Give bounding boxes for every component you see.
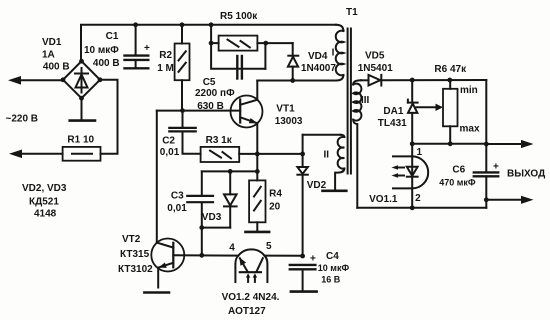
svg-text:630 В: 630 В <box>197 101 224 112</box>
svg-text:1: 1 <box>417 147 423 158</box>
svg-text:ВЫХОД: ВЫХОД <box>507 168 545 179</box>
svg-text:4148: 4148 <box>34 208 57 219</box>
svg-text:1A: 1A <box>42 50 55 61</box>
svg-text:T1: T1 <box>346 7 358 18</box>
svg-text:C3: C3 <box>171 190 184 201</box>
svg-text:III: III <box>361 95 370 106</box>
svg-text:+: + <box>493 162 499 173</box>
svg-text:VD2: VD2 <box>307 180 327 191</box>
svg-text:2200 пФ: 2200 пФ <box>195 88 235 99</box>
svg-text:400 В: 400 В <box>93 58 120 69</box>
svg-text:VO1.2 4N24.: VO1.2 4N24. <box>222 292 280 303</box>
svg-text:КТ315: КТ315 <box>120 249 150 260</box>
svg-text:TL431: TL431 <box>378 118 407 129</box>
svg-text:400 В: 400 В <box>43 62 70 73</box>
svg-text:4: 4 <box>229 243 235 254</box>
svg-text:1N4007: 1N4007 <box>301 63 336 74</box>
svg-text:VD4: VD4 <box>308 51 328 62</box>
svg-text:10 мкФ: 10 мкФ <box>318 263 350 273</box>
svg-text:C4: C4 <box>326 251 339 262</box>
svg-text:+: + <box>144 43 150 54</box>
svg-text:max: max <box>460 123 480 134</box>
svg-text:I: I <box>332 48 335 59</box>
svg-text:16 В: 16 В <box>321 275 341 285</box>
svg-text:470 мкФ: 470 мкФ <box>439 178 476 188</box>
svg-text:C2: C2 <box>162 136 175 147</box>
svg-text:0,01: 0,01 <box>160 147 180 158</box>
svg-text:R3 1к: R3 1к <box>206 135 233 146</box>
svg-text:R5 100к: R5 100к <box>220 11 258 22</box>
svg-text:min: min <box>460 85 478 96</box>
svg-text:АОТ127: АОТ127 <box>228 306 266 317</box>
svg-text:КД521: КД521 <box>29 196 59 207</box>
svg-text:R2: R2 <box>159 50 172 61</box>
svg-text:~220 В: ~220 В <box>6 114 39 125</box>
svg-text:R4: R4 <box>269 189 282 200</box>
svg-text:+: + <box>310 254 316 265</box>
svg-text:0,01: 0,01 <box>167 203 187 214</box>
svg-text:1N5401: 1N5401 <box>358 63 393 74</box>
svg-text:1 М: 1 М <box>157 63 174 74</box>
svg-text:VD2, VD3: VD2, VD3 <box>22 183 67 194</box>
svg-text:VT2: VT2 <box>122 234 141 245</box>
svg-text:VT1: VT1 <box>276 104 295 115</box>
svg-text:13003: 13003 <box>275 116 303 127</box>
svg-text:10 мкФ: 10 мкФ <box>84 45 119 56</box>
svg-text:II: II <box>324 150 330 161</box>
svg-text:VO1.1: VO1.1 <box>369 194 398 205</box>
svg-text:VD5: VD5 <box>365 50 385 61</box>
svg-text:КТ3102: КТ3102 <box>118 264 153 275</box>
svg-text:20: 20 <box>269 201 281 212</box>
svg-text:C6: C6 <box>452 165 465 176</box>
svg-text:R1 10: R1 10 <box>67 135 94 146</box>
svg-text:R6 47к: R6 47к <box>434 64 467 75</box>
svg-text:2: 2 <box>415 193 421 204</box>
svg-text:C1: C1 <box>106 31 119 42</box>
svg-text:5: 5 <box>266 241 272 252</box>
svg-text:VD1: VD1 <box>42 37 62 48</box>
svg-text:VD3: VD3 <box>202 212 222 223</box>
svg-text:C5: C5 <box>203 77 216 88</box>
svg-text:DA1: DA1 <box>383 106 403 117</box>
